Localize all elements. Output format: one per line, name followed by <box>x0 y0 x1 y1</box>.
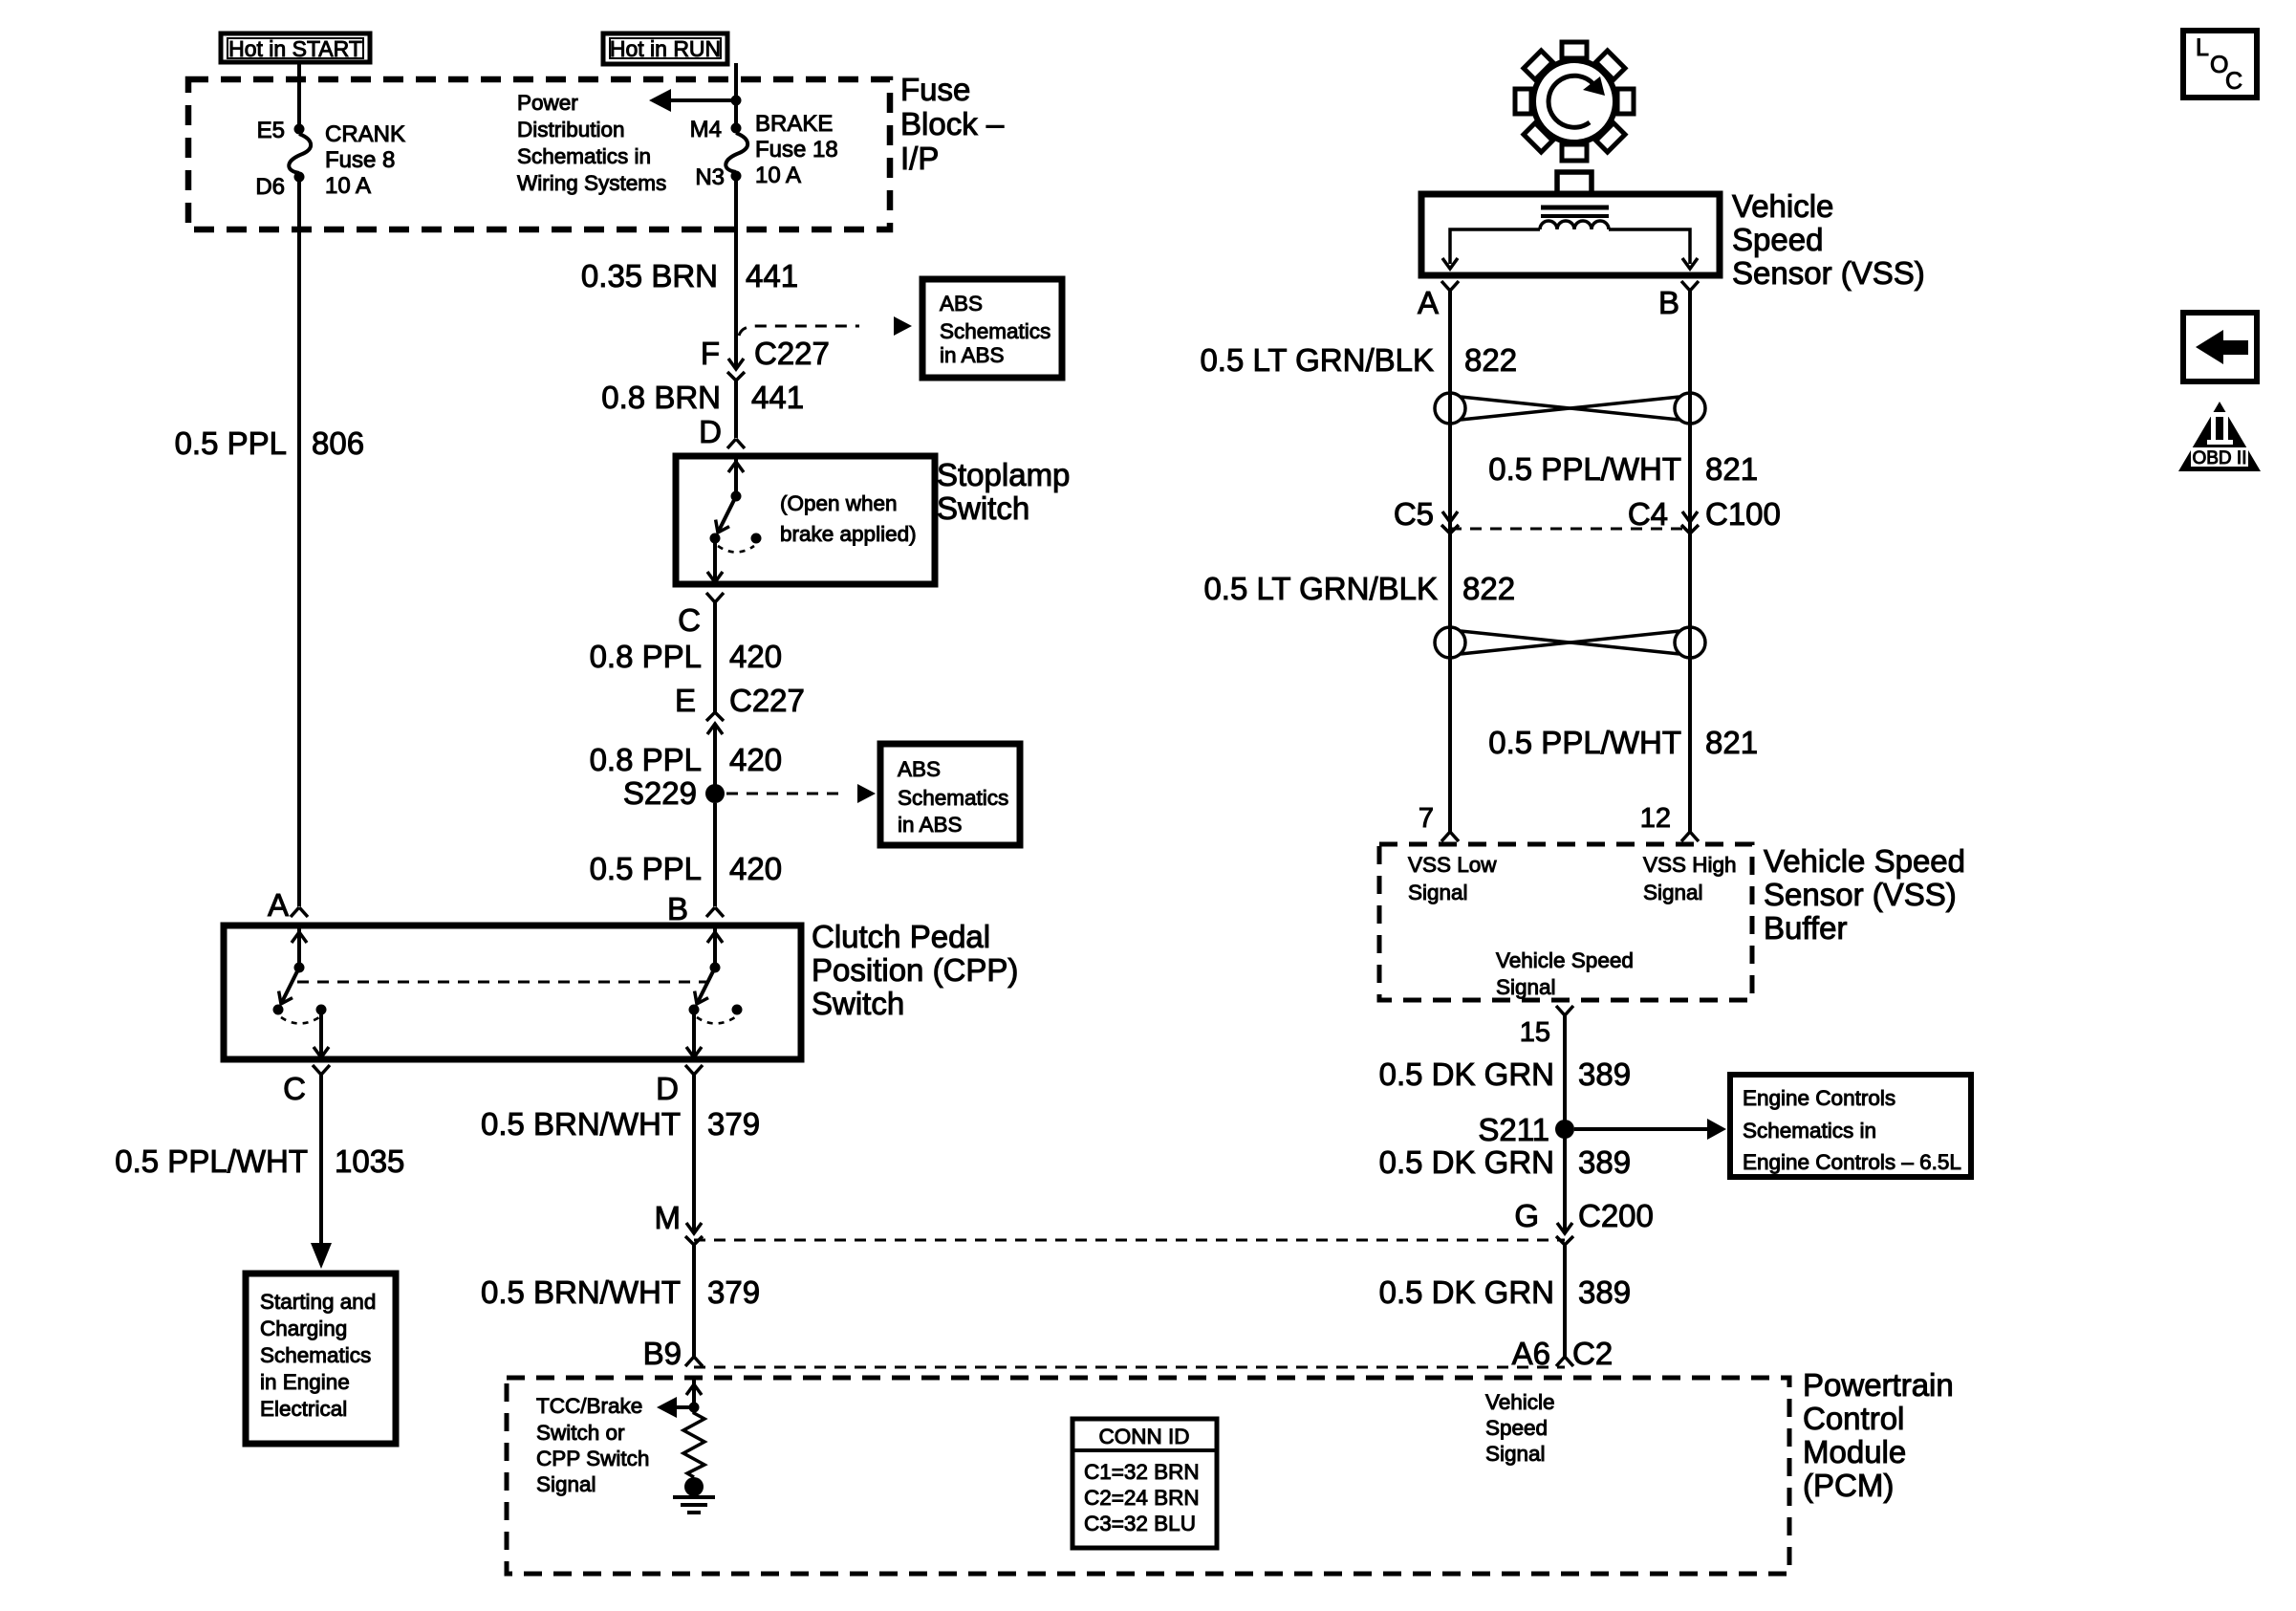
dashed reference line from S229 to ABS schematics <box>726 793 841 795</box>
VSS pickup coil <box>1540 221 1609 229</box>
pin B of CPP switch <box>706 907 724 917</box>
svg-text:Signal: Signal <box>1643 881 1703 904</box>
svg-text:M4: M4 <box>690 117 722 142</box>
arrow to Power Distribution Schematics <box>649 89 736 112</box>
svg-text:Schematics: Schematics <box>260 1343 371 1367</box>
svg-text:0.8 PPL: 0.8 PPL <box>590 639 702 674</box>
pin 7 of VSS buffer <box>1441 832 1459 841</box>
pin D of stoplamp switch <box>727 439 745 448</box>
wire 0.5 LT GRN/BLK 822 (VSS A down to pin 7) <box>1448 291 1452 832</box>
svg-text:I/P: I/P <box>900 141 939 176</box>
svg-text:0.5 PPL/WHT: 0.5 PPL/WHT <box>1488 451 1681 487</box>
label 0.5 BRN/WHT 379 <box>481 1274 760 1310</box>
inline connector C227 pin F <box>727 359 745 381</box>
svg-text:E: E <box>675 683 696 718</box>
label Powertrain Control Module (PCM) <box>1803 1367 1954 1503</box>
svg-text:C: C <box>678 602 701 638</box>
PCM internal wire with up arrow <box>686 1378 702 1407</box>
svg-text:Schematics: Schematics <box>898 786 1008 810</box>
svg-text:OBD II: OBD II <box>2192 448 2246 468</box>
svg-text:822: 822 <box>1462 571 1515 606</box>
wire 0.5 BRN/WHT 379 to connector C200 pin M <box>692 1075 696 1233</box>
fuse BRAKE Fuse 18 10A <box>726 133 747 172</box>
svg-text:Control: Control <box>1803 1401 1904 1436</box>
svg-text:Hot in START: Hot in START <box>228 36 362 61</box>
svg-text:E5: E5 <box>257 118 285 143</box>
label 0.8 BRN 441 <box>601 380 804 415</box>
wire junction to M4 <box>734 100 738 124</box>
svg-text:15: 15 <box>1520 1017 1550 1048</box>
wire 0.5 BRN/WHT 379 to PCM pin B9 <box>692 1245 696 1357</box>
VSS pickup coil core <box>1541 207 1609 216</box>
wire 0.5 DK GRN 389 to connector C200 pin G <box>1563 1129 1567 1233</box>
svg-text:441: 441 <box>746 258 798 294</box>
svg-text:0.5 BRN/WHT: 0.5 BRN/WHT <box>481 1274 681 1310</box>
CPP right switch contact <box>689 1005 700 1015</box>
wire 0.5 DK GRN 389 to PCM pin A6 <box>1563 1245 1567 1357</box>
Vehicle Speed Sensor Buffer dashed box <box>1379 844 1752 1000</box>
svg-text:12: 12 <box>1640 803 1671 834</box>
wire 0.5 PPL 420 from S229 to CPP pin B <box>713 803 717 906</box>
svg-text:(PCM): (PCM) <box>1803 1468 1894 1503</box>
svg-text:822: 822 <box>1464 342 1517 378</box>
dashed reference line to ABS schematics <box>739 326 859 336</box>
pin E5 <box>294 124 305 135</box>
svg-text:0.35 BRN: 0.35 BRN <box>581 258 718 294</box>
svg-text:0.8 BRN: 0.8 BRN <box>601 380 721 415</box>
pin N3 <box>731 171 742 182</box>
svg-text:0.5 PPL/WHT: 0.5 PPL/WHT <box>115 1143 308 1179</box>
label Vehicle Speed Sensor (VSS) Buffer <box>1764 843 1965 946</box>
svg-text:N3: N3 <box>695 164 725 190</box>
svg-text:BRAKE: BRAKE <box>755 111 833 137</box>
ground <box>673 1497 715 1513</box>
CPP right switch exit wire with down arrow <box>686 1014 702 1057</box>
svg-text:0.5 PPL/WHT: 0.5 PPL/WHT <box>1488 725 1681 760</box>
inline connector C100 pin C5 <box>1441 512 1459 533</box>
stoplamp switch box <box>676 456 935 584</box>
connector C100 dashed plane <box>1450 528 1690 531</box>
label Clutch Pedal Position (CPP) Switch <box>812 919 1018 1021</box>
svg-text:389: 389 <box>1578 1056 1631 1092</box>
svg-text:F: F <box>701 336 720 371</box>
inline connector C200 pin G <box>1556 1223 1573 1245</box>
CPP right switch travel arc <box>697 1017 735 1024</box>
svg-text:Switch: Switch <box>812 986 904 1021</box>
svg-text:D6: D6 <box>255 174 285 200</box>
wire 0.8 BRN 441 to stoplamp switch pin D <box>734 381 738 438</box>
svg-text:Clutch Pedal: Clutch Pedal <box>812 919 990 954</box>
Vehicle Speed Sensor box <box>1421 194 1720 275</box>
label 0.5 PPL/WHT 1035 <box>115 1143 404 1179</box>
svg-text:Switch: Switch <box>937 490 1029 526</box>
svg-text:S229: S229 <box>623 775 697 811</box>
reference box Engine Controls Schematics in Engine Controls 6.5L <box>1730 1075 1971 1177</box>
svg-text:G: G <box>1514 1198 1539 1233</box>
twisted pair symbol <box>1435 627 1705 658</box>
label 0.5 DK GRN 389 <box>1379 1274 1631 1310</box>
wire 0.5 PPL 806 from D6 to CPP pin A <box>297 182 301 906</box>
label 0.5 PPL/WHT 821 <box>1488 451 1758 487</box>
note TCC/Brake Switch or CPP Switch Signal <box>536 1394 649 1496</box>
svg-text:B9: B9 <box>643 1336 682 1371</box>
svg-text:C227: C227 <box>729 683 805 718</box>
svg-text:Signal: Signal <box>1496 975 1556 999</box>
pin D of CPP switch <box>685 1065 703 1075</box>
svg-text:A: A <box>1418 285 1439 320</box>
note Vehicle Speed Signal <box>1496 948 1634 999</box>
wire 0.35 BRN 441 from N3 to connector C227 pin F <box>734 181 738 369</box>
pin 15 of VSS buffer <box>1556 1006 1573 1015</box>
label 0.8 PPL 420 <box>590 742 782 777</box>
svg-text:Starting and: Starting and <box>260 1290 376 1314</box>
OBD II icon <box>2178 402 2261 471</box>
Powertrain Control Module dashed box <box>507 1378 1789 1574</box>
svg-text:C3=32 BLU: C3=32 BLU <box>1084 1512 1196 1535</box>
label 0.5 PPL 420 <box>590 851 782 886</box>
svg-text:379: 379 <box>707 1106 760 1142</box>
pin B of VSS <box>1681 281 1699 291</box>
svg-text:Power: Power <box>517 91 578 115</box>
CPP right switch entry wire with up arrow <box>707 925 723 963</box>
svg-text:(Open when: (Open when <box>780 491 898 515</box>
svg-text:420: 420 <box>729 851 782 886</box>
VSS sensor tab <box>1557 172 1592 194</box>
svg-text:Vehicle: Vehicle <box>1732 188 1833 224</box>
svg-text:brake applied): brake applied) <box>780 522 917 546</box>
svg-text:0.5 PPL: 0.5 PPL <box>175 425 287 461</box>
svg-text:CONN ID: CONN ID <box>1099 1425 1190 1448</box>
svg-text:Electrical: Electrical <box>260 1397 347 1421</box>
svg-text:Block –: Block – <box>900 106 1005 142</box>
label 0.5 DK GRN 389 <box>1379 1144 1631 1180</box>
CPP left switch travel arc <box>281 1017 319 1024</box>
svg-text:Vehicle: Vehicle <box>1485 1390 1555 1414</box>
Hot in RUN power tag <box>603 33 727 64</box>
svg-text:Fuse: Fuse <box>900 72 970 107</box>
svg-text:ABS: ABS <box>898 757 941 781</box>
svg-text:C2=24 BRN: C2=24 BRN <box>1084 1486 1200 1510</box>
svg-text:Buffer: Buffer <box>1764 910 1847 946</box>
arrow from S211 to Engine Controls reference <box>1574 1119 1726 1140</box>
svg-text:C: C <box>283 1071 306 1106</box>
svg-text:C4: C4 <box>1628 496 1668 532</box>
svg-text:VSS Low: VSS Low <box>1408 853 1497 877</box>
svg-text:Fuse 8: Fuse 8 <box>325 147 395 173</box>
svg-text:0.5 BRN/WHT: 0.5 BRN/WHT <box>481 1106 681 1142</box>
svg-text:Charging: Charging <box>260 1317 347 1340</box>
splice S229 <box>705 784 725 803</box>
stoplamp switch internal: entry wire with up arrow <box>728 456 744 491</box>
stoplamp switch contact <box>710 533 721 544</box>
label 0.5 PPL/WHT 821 <box>1488 725 1758 760</box>
page reference LOC icon <box>2183 31 2257 98</box>
svg-text:Vehicle Speed: Vehicle Speed <box>1496 948 1634 972</box>
pin C of stoplamp switch <box>706 593 724 602</box>
svg-text:C1=32 BRN: C1=32 BRN <box>1084 1460 1200 1484</box>
svg-text:VSS High: VSS High <box>1643 853 1737 877</box>
svg-text:821: 821 <box>1705 725 1758 760</box>
svg-text:420: 420 <box>729 639 782 674</box>
svg-text:D: D <box>656 1071 679 1106</box>
svg-text:0.5 DK GRN: 0.5 DK GRN <box>1379 1144 1554 1180</box>
svg-text:M: M <box>655 1200 682 1235</box>
wire from Hot in START to fuse E5 <box>297 61 301 125</box>
svg-text:441: 441 <box>751 380 804 415</box>
resistor (PCM pull-up) <box>683 1407 704 1477</box>
pin B9 of PCM <box>685 1357 703 1366</box>
pin 12 of VSS buffer <box>1681 832 1699 841</box>
svg-text:C5: C5 <box>1394 496 1434 532</box>
svg-text:A6: A6 <box>1512 1336 1550 1371</box>
svg-text:0.5 DK GRN: 0.5 DK GRN <box>1379 1056 1554 1092</box>
stoplamp switch pivot <box>731 491 742 502</box>
svg-text:Speed: Speed <box>1485 1416 1548 1440</box>
svg-text:Powertrain: Powertrain <box>1803 1367 1954 1403</box>
label 0.5 LT GRN/BLK 822 <box>1200 342 1517 378</box>
svg-text:389: 389 <box>1578 1144 1631 1180</box>
CPP left switch entry wire with up arrow <box>292 925 307 963</box>
note (Open when brake applied) <box>780 491 917 546</box>
svg-text:10 A: 10 A <box>755 163 801 188</box>
svg-text:1035: 1035 <box>335 1143 404 1179</box>
stoplamp switch travel arc <box>718 546 754 553</box>
svg-text:Schematics: Schematics <box>940 319 1051 343</box>
svg-text:0.5 DK GRN: 0.5 DK GRN <box>1379 1274 1554 1310</box>
svg-text:L: L <box>2196 34 2209 61</box>
CPP left switch blade <box>274 968 299 1008</box>
svg-text:C227: C227 <box>754 336 830 371</box>
label 0.5 DK GRN 389 <box>1379 1056 1631 1092</box>
CPP left switch pivot <box>294 963 305 973</box>
inline connector C227 pin E <box>706 712 724 734</box>
wire 0.5 DK GRN 389 to splice S211 <box>1563 1015 1567 1129</box>
stoplamp switch exit wire with down arrow <box>707 543 723 582</box>
arrow into Starting and Charging reference <box>311 1243 332 1269</box>
CPP right switch pivot <box>710 963 721 973</box>
wire 0.5 PPL/WHT 821 (VSS B down to pin 12) <box>1688 291 1692 832</box>
pin A of CPP switch <box>291 907 308 917</box>
splice S211 <box>1555 1120 1574 1139</box>
inline connector C100 pin C4 <box>1681 512 1699 533</box>
VSS internal wiring with down arrows <box>1442 229 1698 269</box>
svg-text:C200: C200 <box>1578 1198 1654 1233</box>
svg-text:C: C <box>2225 68 2242 95</box>
svg-text:D: D <box>699 414 722 449</box>
svg-text:0.5 LT GRN/BLK: 0.5 LT GRN/BLK <box>1200 342 1434 378</box>
svg-text:821: 821 <box>1705 451 1758 487</box>
svg-text:Schematics in: Schematics in <box>1743 1119 1876 1143</box>
stoplamp switch blade <box>711 496 736 536</box>
label 0.5 LT GRN/BLK 822 <box>1203 571 1515 606</box>
pin C of CPP switch <box>313 1065 330 1075</box>
wire from Hot in RUN to junction <box>734 63 738 100</box>
CPP left switch contact <box>273 1005 284 1015</box>
arrow to TCC/Brake note <box>657 1397 694 1418</box>
ground dot <box>684 1477 704 1496</box>
svg-text:Engine Controls – 6.5L: Engine Controls – 6.5L <box>1743 1150 1961 1174</box>
svg-text:Module: Module <box>1803 1434 1906 1469</box>
svg-text:C100: C100 <box>1705 496 1781 532</box>
note Power Distribution Schematics in Wiring Systems <box>517 91 666 195</box>
inline connector C200 pin M <box>685 1223 703 1245</box>
svg-text:0.5 PPL: 0.5 PPL <box>590 851 702 886</box>
svg-text:Distribution: Distribution <box>517 118 625 142</box>
svg-text:Wiring Systems: Wiring Systems <box>517 171 666 195</box>
svg-text:Engine Controls: Engine Controls <box>1743 1086 1895 1110</box>
svg-text:Position (CPP): Position (CPP) <box>812 952 1018 988</box>
stoplamp switch open contact <box>751 533 762 544</box>
pin A6 connector C2 of PCM <box>1556 1357 1573 1366</box>
Fuse Block I/P dashed box <box>188 79 890 229</box>
svg-text:Schematics in: Schematics in <box>517 144 651 168</box>
svg-text:C2: C2 <box>1572 1336 1613 1371</box>
note VSS High Signal <box>1643 853 1737 904</box>
svg-text:ABS: ABS <box>940 292 983 316</box>
svg-text:CPP Switch: CPP Switch <box>536 1447 649 1470</box>
CPP left switch output contact <box>316 1005 327 1015</box>
svg-text:7: 7 <box>1419 803 1434 834</box>
svg-text:S211: S211 <box>1478 1112 1549 1147</box>
Clutch Pedal Position switch box <box>224 925 801 1059</box>
svg-text:389: 389 <box>1578 1274 1631 1310</box>
svg-text:in ABS: in ABS <box>898 813 963 837</box>
back arrow icon <box>2183 313 2257 381</box>
svg-text:in ABS: in ABS <box>940 343 1005 367</box>
Hot in START power tag <box>221 33 370 62</box>
svg-text:Sensor (VSS): Sensor (VSS) <box>1732 255 1925 291</box>
svg-text:0.8 PPL: 0.8 PPL <box>590 742 702 777</box>
pin A of VSS <box>1441 281 1459 291</box>
svg-text:B: B <box>1658 285 1679 320</box>
label 0.5 BRN/WHT 379 <box>481 1106 760 1142</box>
CPP right switch open contact <box>732 1005 743 1015</box>
reference box Starting and Charging Schematics in Engine Electrical <box>246 1274 396 1444</box>
note VSS Low Signal <box>1408 853 1497 904</box>
wire 0.8 PPL 420 to splice S229 <box>713 724 717 794</box>
CPP left switch exit wire with down arrow <box>314 1014 329 1057</box>
CPP right switch blade <box>690 968 715 1008</box>
CONN ID table <box>1072 1419 1217 1548</box>
node TCC/Brake signal junction <box>689 1403 700 1413</box>
svg-text:in Engine: in Engine <box>260 1370 350 1394</box>
svg-text:Vehicle Speed: Vehicle Speed <box>1764 843 1965 879</box>
svg-text:806: 806 <box>312 425 364 461</box>
svg-text:Stoplamp: Stoplamp <box>937 457 1070 492</box>
label 0.35 BRN 441 <box>581 258 798 294</box>
svg-text:TCC/Brake: TCC/Brake <box>536 1394 642 1418</box>
svg-text:Signal: Signal <box>1485 1442 1546 1466</box>
svg-text:Signal: Signal <box>536 1472 596 1496</box>
svg-text:Signal: Signal <box>1408 881 1468 904</box>
svg-text:420: 420 <box>729 742 782 777</box>
svg-text:Switch or: Switch or <box>536 1421 625 1445</box>
svg-text:10 A: 10 A <box>325 173 371 199</box>
label Vehicle Speed Sensor (VSS) <box>1732 188 1925 291</box>
svg-text:Sensor (VSS): Sensor (VSS) <box>1764 877 1957 912</box>
reference box ABS Schematics in ABS <box>880 744 1020 845</box>
wire 0.8 PPL 420 to connector C227 pin E <box>713 602 717 712</box>
label 0.8 PPL 420 <box>590 639 782 674</box>
twisted pair symbol <box>1435 393 1705 424</box>
connector C200 dashed plane <box>694 1239 1565 1242</box>
reluctor gear icon <box>1515 42 1634 161</box>
svg-text:CRANK: CRANK <box>325 121 405 147</box>
svg-text:Hot in RUN: Hot in RUN <box>610 36 721 61</box>
wire 0.5 PPL/WHT 1035 <box>319 1075 323 1248</box>
svg-text:Fuse 18: Fuse 18 <box>755 137 838 163</box>
svg-text:B: B <box>667 891 688 926</box>
fuse CRANK Fuse 8 10A <box>289 134 311 173</box>
svg-text:0.5 LT GRN/BLK: 0.5 LT GRN/BLK <box>1203 571 1438 606</box>
label 0.5 PPL 806 <box>175 425 364 461</box>
pin M4 <box>731 123 742 134</box>
note Vehicle Speed Signal inside PCM <box>1485 1390 1555 1466</box>
label Fuse Block - I/P <box>900 72 1005 176</box>
reference box ABS Schematics in ABS <box>922 279 1062 378</box>
svg-text:379: 379 <box>707 1274 760 1310</box>
label Stoplamp Switch <box>937 457 1070 526</box>
connector plane at PCM <box>694 1366 1565 1369</box>
junction to power distribution <box>731 96 742 106</box>
svg-text:Speed: Speed <box>1732 222 1823 257</box>
pin D6 <box>294 172 305 183</box>
svg-text:A: A <box>268 887 289 923</box>
CPP mechanical link dashed line <box>297 981 709 984</box>
